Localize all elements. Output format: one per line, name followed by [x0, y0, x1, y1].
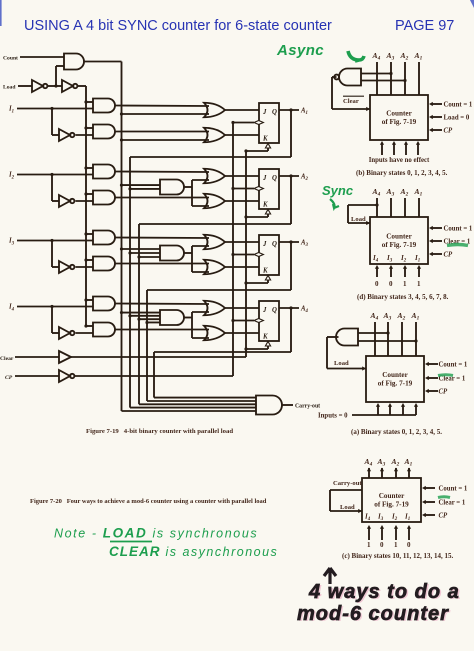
svg-text:Carry-out: Carry-out	[295, 404, 320, 410]
svg-text:4 ways to do a: 4 ways to do a	[308, 581, 460, 603]
svg-text:J: J	[262, 175, 267, 182]
svg-text:Load: Load	[351, 216, 366, 223]
svg-text:Inputs have no effect: Inputs have no effect	[369, 157, 430, 164]
svg-text:0: 0	[407, 541, 411, 549]
svg-text:K: K	[262, 202, 268, 209]
svg-text:of Fig. 7-19: of Fig. 7-19	[382, 241, 417, 249]
svg-text:0: 0	[380, 541, 384, 549]
svg-text:0: 0	[375, 280, 379, 288]
svg-text:Count = 1: Count = 1	[444, 101, 473, 108]
svg-text:(a) Binary states 0, 1, 2, 3,: (a) Binary states 0, 1, 2, 3, 4, 5.	[351, 428, 442, 436]
svg-text:USING A 4 bit SYNC counter for: USING A 4 bit SYNC counter for 6-state c…	[24, 18, 332, 34]
svg-text:Carry-out: Carry-out	[333, 480, 362, 487]
svg-text:1: 1	[417, 280, 421, 288]
svg-text:Load: Load	[334, 360, 349, 367]
svg-text:CP: CP	[439, 388, 449, 395]
svg-text:1: 1	[367, 541, 371, 549]
svg-text:Note - LOAD is synchronous: Note - LOAD is synchronous	[54, 526, 258, 541]
svg-text:Count: Count	[3, 56, 18, 62]
svg-text:K: K	[262, 268, 268, 275]
svg-text:K: K	[262, 334, 268, 341]
svg-text:1: 1	[403, 280, 407, 288]
svg-text:0: 0	[389, 280, 393, 288]
svg-text:Clear = 1: Clear = 1	[439, 499, 466, 506]
svg-text:Counter: Counter	[386, 110, 412, 118]
svg-text:Async: Async	[276, 42, 324, 59]
svg-text:Count = 1: Count = 1	[439, 485, 468, 492]
svg-text:J: J	[262, 307, 267, 314]
svg-text:Figure 7-19 4-bit binary cou: Figure 7-19 4-bit binary counter with pa…	[86, 428, 233, 435]
svg-text:Load: Load	[3, 85, 16, 91]
svg-text:Q: Q	[272, 307, 277, 314]
svg-text:(d) Binary states 3, 4, 5, 6,: (d) Binary states 3, 4, 5, 6, 7, 8.	[357, 293, 449, 301]
svg-text:of Fig. 7-19: of Fig. 7-19	[378, 380, 413, 388]
svg-text:(b) Binary states 0, 1, 2, 3,: (b) Binary states 0, 1, 2, 3, 4, 5.	[356, 169, 448, 177]
svg-text:CP: CP	[444, 251, 454, 258]
svg-text:1: 1	[394, 541, 398, 549]
svg-text:Clear: Clear	[0, 356, 14, 362]
svg-text:Load: Load	[340, 504, 355, 511]
svg-text:Q: Q	[272, 175, 277, 182]
svg-text:Sync: Sync	[322, 183, 354, 198]
svg-text:Count = 1: Count = 1	[439, 361, 468, 368]
svg-text:(c) Binary states 10, 11, 12,: (c) Binary states 10, 11, 12, 13, 14, 15…	[342, 552, 453, 560]
svg-text:K: K	[262, 136, 268, 143]
svg-text:CLEAR is asynchronous: CLEAR is asynchronous	[109, 544, 278, 559]
svg-text:mod-6 counter: mod-6 counter	[297, 603, 449, 625]
svg-text:Count = 1: Count = 1	[444, 225, 473, 232]
svg-text:Clear: Clear	[343, 98, 359, 105]
svg-text:Figure 7-20 Four ways to ach: Figure 7-20 Four ways to achieve a mod-6…	[30, 498, 267, 505]
svg-text:Q: Q	[272, 241, 277, 248]
svg-text:J: J	[262, 241, 267, 248]
svg-text:PAGE 97: PAGE 97	[395, 18, 454, 34]
svg-text:Counter: Counter	[386, 233, 412, 241]
svg-text:Q: Q	[272, 109, 277, 116]
svg-text:of Fig. 7-19: of Fig. 7-19	[382, 118, 417, 126]
svg-text:CP: CP	[5, 375, 13, 381]
svg-text:Inputs = 0: Inputs = 0	[318, 413, 348, 420]
svg-text:CP: CP	[444, 127, 454, 134]
svg-text:of Fig. 7-19: of Fig. 7-19	[374, 501, 409, 509]
svg-text:Counter: Counter	[382, 371, 408, 379]
svg-text:Counter: Counter	[379, 492, 405, 500]
svg-text:J: J	[262, 109, 267, 116]
svg-text:CP: CP	[439, 512, 449, 519]
svg-text:Load = 0: Load = 0	[444, 114, 470, 121]
